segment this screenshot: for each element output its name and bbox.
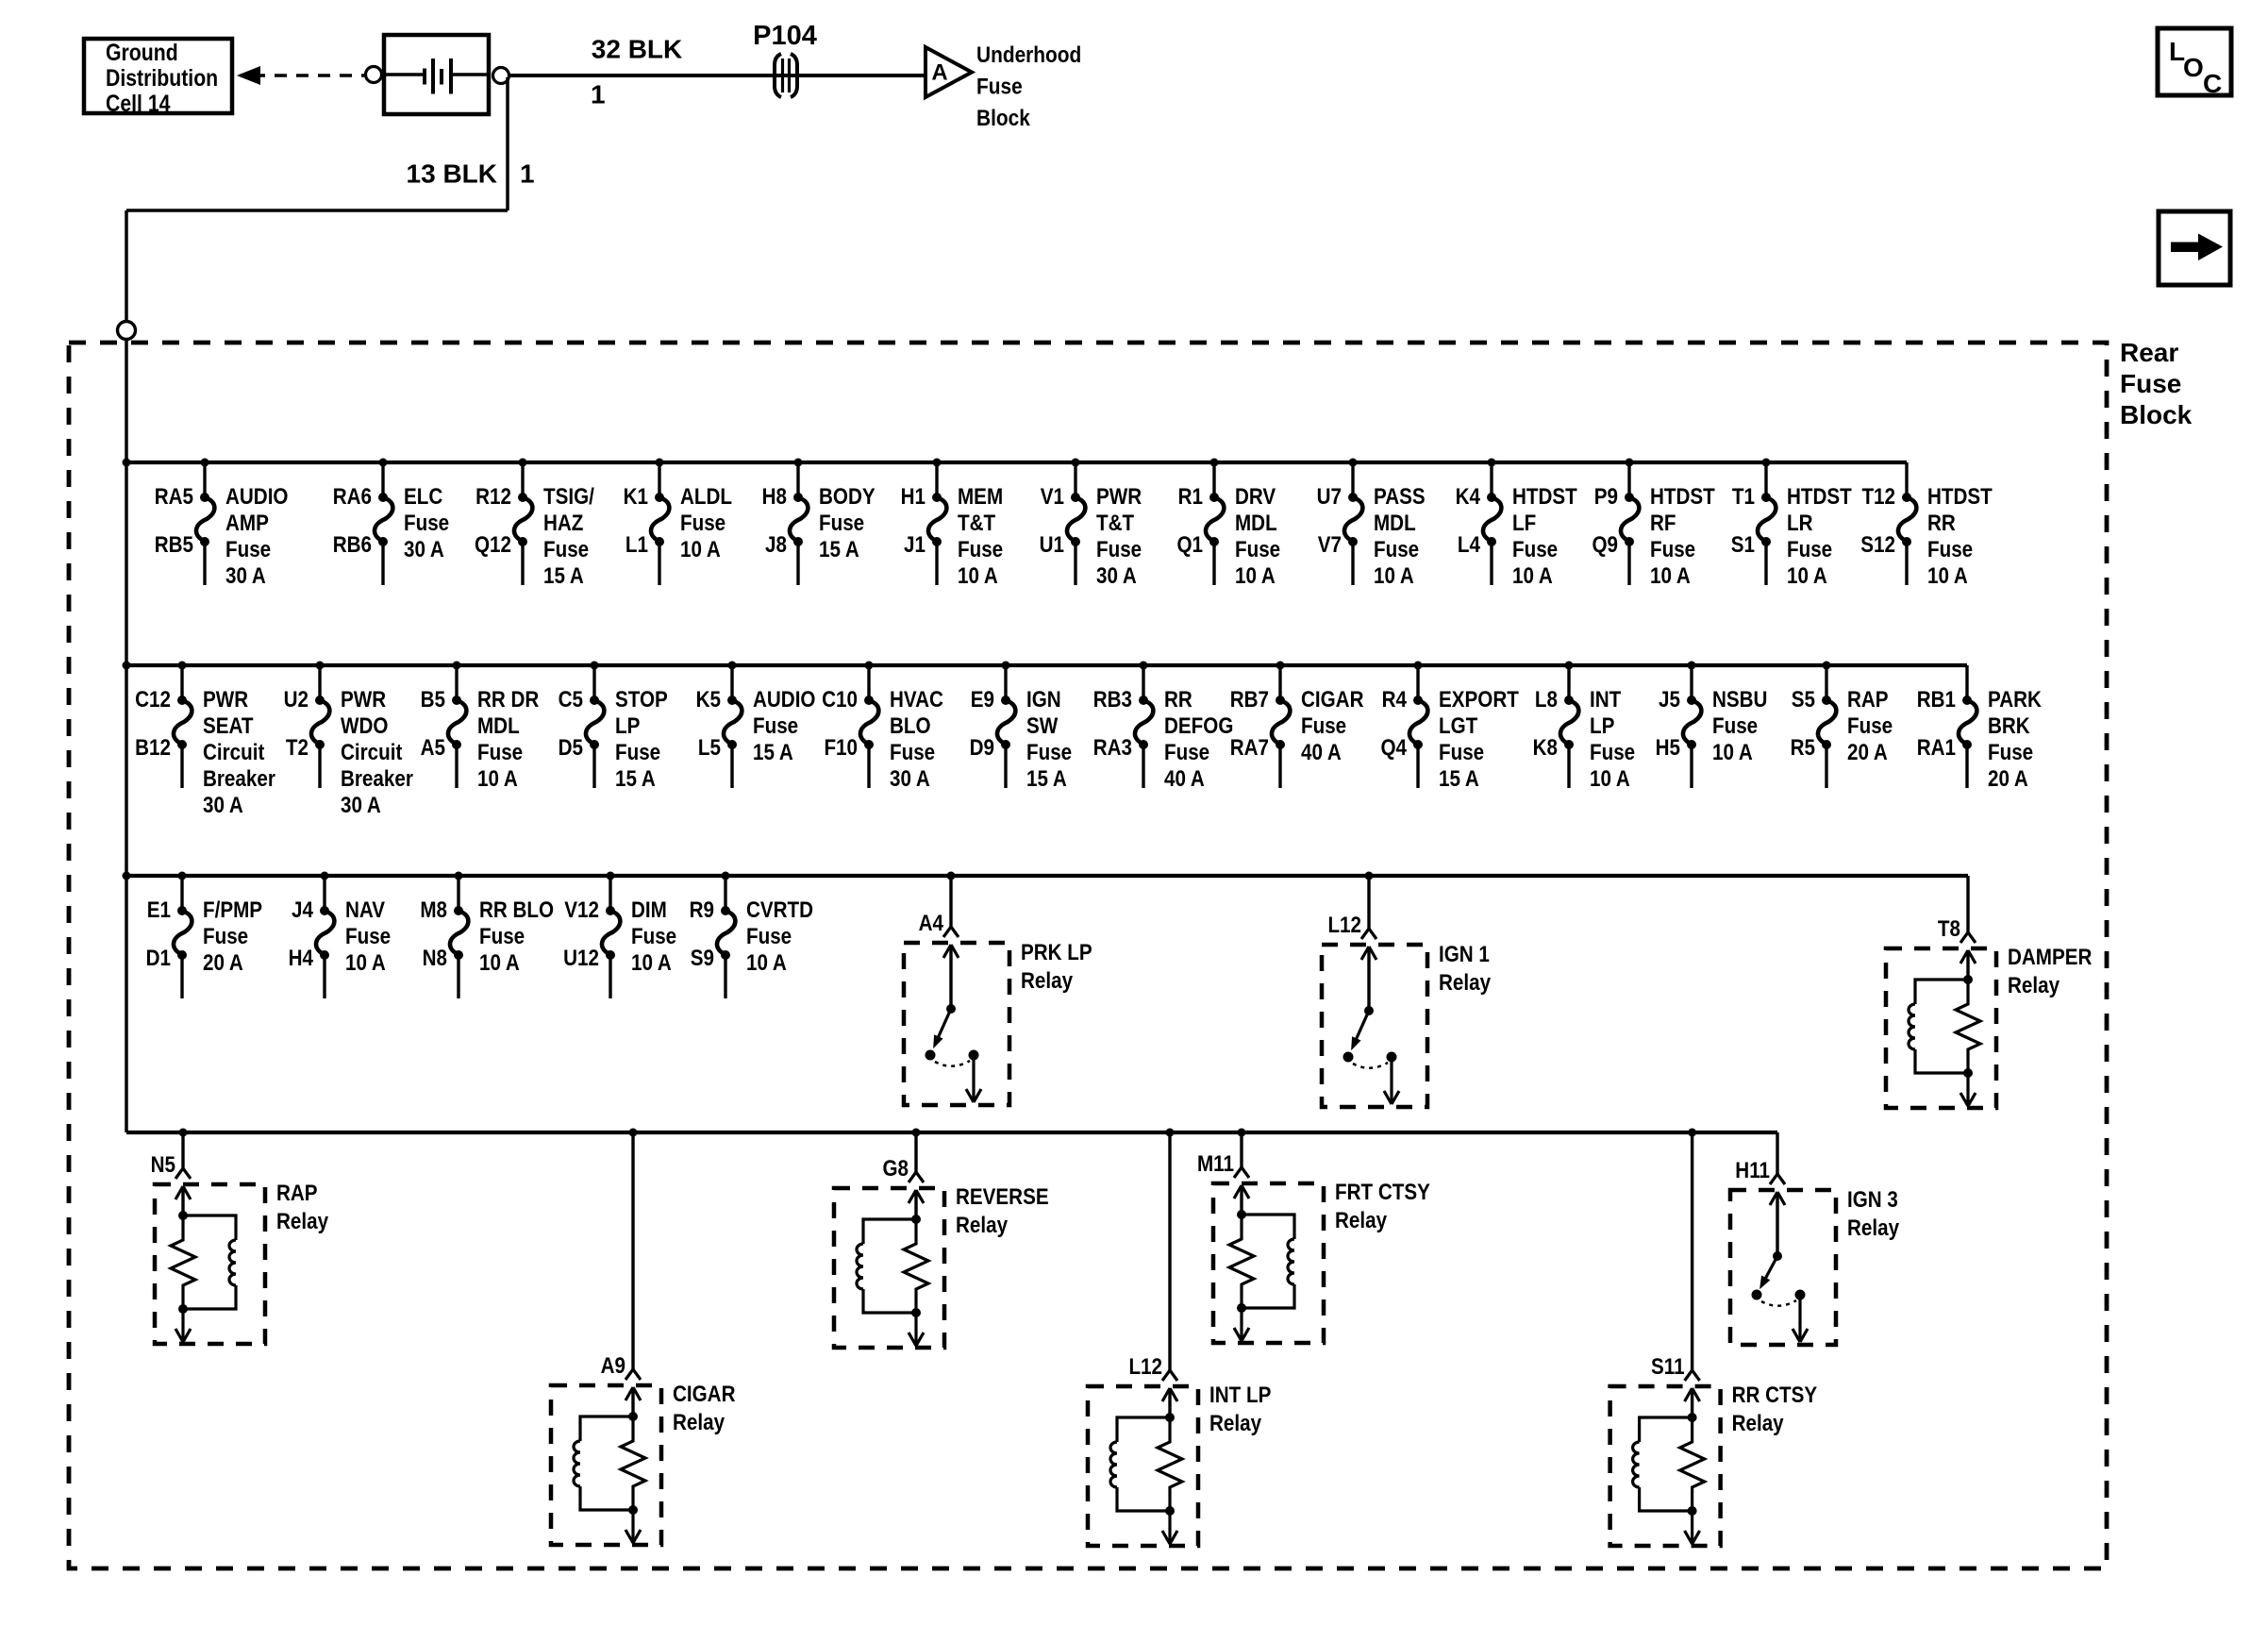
- svg-text:Fuse: Fuse: [1927, 537, 1973, 562]
- svg-text:J5: J5: [1659, 687, 1680, 712]
- svg-text:H4: H4: [289, 946, 314, 971]
- svg-text:Q9: Q9: [1592, 532, 1618, 558]
- svg-text:10 A: 10 A: [1235, 563, 1276, 589]
- svg-text:S12: S12: [1860, 532, 1895, 558]
- svg-text:S9: S9: [691, 946, 714, 971]
- svg-text:Cell 14: Cell 14: [106, 90, 171, 116]
- svg-text:AMP: AMP: [225, 511, 269, 536]
- svg-text:STOP: STOP: [615, 687, 668, 712]
- svg-text:U12: U12: [563, 946, 599, 971]
- svg-text:RR: RR: [1164, 687, 1192, 712]
- svg-text:Fuse: Fuse: [753, 713, 798, 739]
- svg-text:Circuit: Circuit: [203, 740, 265, 765]
- svg-text:R1: R1: [1178, 484, 1203, 510]
- svg-text:15 A: 15 A: [819, 537, 859, 562]
- svg-text:RB1: RB1: [1917, 687, 1956, 712]
- svg-text:PARK: PARK: [1988, 687, 2042, 712]
- svg-text:Fuse: Fuse: [345, 924, 391, 949]
- svg-text:15 A: 15 A: [753, 740, 793, 765]
- svg-text:PWR: PWR: [341, 687, 386, 712]
- svg-text:30 A: 30 A: [225, 563, 266, 589]
- svg-text:Fuse: Fuse: [1301, 713, 1346, 739]
- svg-text:Fuse: Fuse: [543, 537, 589, 562]
- svg-text:RA1: RA1: [1917, 735, 1956, 761]
- svg-text:Fuse: Fuse: [1787, 537, 1832, 562]
- svg-text:INT LP: INT LP: [1209, 1383, 1271, 1408]
- svg-text:Relay: Relay: [1335, 1208, 1388, 1233]
- svg-text:AUDIO: AUDIO: [753, 687, 815, 712]
- svg-text:15 A: 15 A: [1439, 766, 1479, 792]
- svg-text:RF: RF: [1650, 511, 1676, 536]
- svg-text:H8: H8: [762, 484, 787, 510]
- svg-text:Fuse: Fuse: [225, 537, 271, 562]
- svg-text:A9: A9: [601, 1353, 625, 1379]
- svg-text:L8: L8: [1535, 687, 1558, 712]
- svg-text:10 A: 10 A: [1787, 563, 1827, 589]
- svg-text:32 BLK: 32 BLK: [592, 35, 682, 64]
- svg-text:Fuse: Fuse: [404, 511, 449, 536]
- svg-text:Fuse: Fuse: [2120, 369, 2181, 398]
- svg-text:Fuse: Fuse: [1235, 537, 1280, 562]
- svg-text:T1: T1: [1732, 484, 1755, 510]
- svg-text:H1: H1: [901, 484, 926, 510]
- svg-text:M8: M8: [420, 897, 447, 923]
- svg-text:H5: H5: [1656, 735, 1680, 761]
- svg-text:Ground: Ground: [106, 39, 178, 65]
- svg-text:H11: H11: [1735, 1158, 1770, 1183]
- svg-text:10 A: 10 A: [680, 537, 721, 562]
- svg-text:RAP: RAP: [276, 1181, 318, 1206]
- svg-text:Fuse: Fuse: [1847, 713, 1893, 739]
- svg-text:Relay: Relay: [1847, 1215, 1900, 1241]
- svg-text:RB7: RB7: [1230, 687, 1269, 712]
- svg-text:20 A: 20 A: [1988, 766, 2028, 792]
- svg-text:Fuse: Fuse: [1026, 740, 1072, 765]
- svg-text:PRK LP: PRK LP: [1021, 940, 1092, 965]
- svg-text:AUDIO: AUDIO: [225, 484, 288, 510]
- svg-text:Fuse: Fuse: [746, 924, 792, 949]
- svg-text:10 A: 10 A: [1512, 563, 1553, 589]
- svg-text:Fuse: Fuse: [1590, 740, 1635, 765]
- svg-text:Fuse: Fuse: [1712, 713, 1758, 739]
- svg-text:MDL: MDL: [1374, 511, 1416, 536]
- svg-text:D5: D5: [559, 735, 583, 761]
- svg-text:10 A: 10 A: [345, 950, 386, 976]
- svg-text:L4: L4: [1458, 532, 1481, 558]
- svg-text:TSIG/: TSIG/: [543, 484, 594, 510]
- svg-text:L1: L1: [625, 532, 648, 558]
- svg-text:10 A: 10 A: [1927, 563, 1968, 589]
- svg-text:R5: R5: [1791, 735, 1815, 761]
- svg-text:Circuit: Circuit: [341, 740, 403, 765]
- svg-text:K8: K8: [1533, 735, 1558, 761]
- svg-text:SW: SW: [1026, 713, 1059, 739]
- svg-text:N5: N5: [151, 1152, 175, 1178]
- svg-text:U2: U2: [284, 687, 309, 712]
- svg-text:R4: R4: [1382, 687, 1408, 712]
- svg-text:T&T: T&T: [1096, 511, 1134, 536]
- svg-text:RA3: RA3: [1093, 735, 1132, 761]
- svg-text:E1: E1: [147, 897, 171, 923]
- svg-text:Fuse: Fuse: [1650, 537, 1695, 562]
- svg-text:R12: R12: [475, 484, 511, 510]
- svg-text:C12: C12: [135, 687, 171, 712]
- svg-text:V12: V12: [564, 897, 599, 923]
- svg-text:HAZ: HAZ: [543, 511, 584, 536]
- svg-text:30 A: 30 A: [203, 793, 243, 818]
- svg-text:15 A: 15 A: [543, 563, 584, 589]
- svg-text:K1: K1: [624, 484, 648, 510]
- svg-text:Fuse: Fuse: [890, 740, 935, 765]
- svg-text:SEAT: SEAT: [203, 713, 254, 739]
- svg-text:S5: S5: [1792, 687, 1815, 712]
- svg-text:BODY: BODY: [819, 484, 876, 510]
- svg-text:S1: S1: [1731, 532, 1755, 558]
- svg-text:T8: T8: [1938, 916, 1960, 942]
- svg-text:10 A: 10 A: [1712, 740, 1753, 765]
- svg-text:RR BLO: RR BLO: [479, 897, 554, 923]
- svg-text:Relay: Relay: [2008, 973, 2060, 998]
- svg-text:F/PMP: F/PMP: [203, 897, 262, 923]
- svg-text:DRV: DRV: [1235, 484, 1276, 510]
- svg-text:Fuse: Fuse: [1439, 740, 1484, 765]
- svg-text:Fuse: Fuse: [1096, 537, 1142, 562]
- svg-text:LP: LP: [1590, 713, 1614, 739]
- svg-text:Distribution: Distribution: [106, 64, 218, 91]
- svg-text:EXPORT: EXPORT: [1439, 687, 1519, 712]
- svg-text:10 A: 10 A: [1374, 563, 1414, 589]
- svg-text:NAV: NAV: [345, 897, 385, 923]
- svg-text:30 A: 30 A: [1096, 563, 1137, 589]
- svg-text:HVAC: HVAC: [890, 687, 943, 712]
- svg-text:LP: LP: [615, 713, 640, 739]
- svg-text:E9: E9: [971, 687, 994, 712]
- svg-text:Fuse: Fuse: [819, 511, 864, 536]
- svg-text:Fuse: Fuse: [958, 537, 1003, 562]
- svg-text:DEFOG: DEFOG: [1164, 713, 1233, 739]
- svg-text:C10: C10: [822, 687, 858, 712]
- svg-text:DAMPER: DAMPER: [2008, 945, 2092, 970]
- svg-text:LF: LF: [1512, 511, 1536, 536]
- svg-text:C5: C5: [559, 687, 583, 712]
- svg-text:Block: Block: [976, 106, 1030, 131]
- svg-text:30 A: 30 A: [341, 793, 381, 818]
- svg-text:Relay: Relay: [1209, 1411, 1262, 1436]
- svg-text:B12: B12: [135, 735, 171, 761]
- svg-text:L12: L12: [1327, 913, 1361, 938]
- svg-text:MEM: MEM: [958, 484, 1003, 510]
- svg-text:Relay: Relay: [1732, 1411, 1785, 1436]
- svg-text:HTDST: HTDST: [1787, 484, 1852, 510]
- svg-text:K5: K5: [696, 687, 721, 712]
- svg-text:10 A: 10 A: [479, 950, 520, 976]
- svg-text:30 A: 30 A: [890, 766, 930, 792]
- svg-text:Fuse: Fuse: [203, 924, 248, 949]
- svg-text:N8: N8: [423, 946, 447, 971]
- svg-text:REVERSE: REVERSE: [956, 1184, 1049, 1210]
- svg-text:10 A: 10 A: [958, 563, 998, 589]
- svg-text:S11: S11: [1651, 1354, 1685, 1380]
- svg-text:10 A: 10 A: [477, 766, 518, 792]
- svg-text:Fuse: Fuse: [477, 740, 523, 765]
- svg-text:Q4: Q4: [1380, 735, 1407, 761]
- svg-text:Underhood: Underhood: [976, 42, 1081, 68]
- svg-text:RAP: RAP: [1847, 687, 1889, 712]
- svg-text:J8: J8: [765, 532, 787, 558]
- svg-text:V1: V1: [1041, 484, 1064, 510]
- svg-text:Rear: Rear: [2120, 338, 2178, 367]
- svg-text:L5: L5: [698, 735, 721, 761]
- svg-text:A: A: [931, 60, 947, 86]
- svg-text:G8: G8: [882, 1156, 909, 1182]
- svg-text:PASS: PASS: [1374, 484, 1426, 510]
- svg-text:PWR: PWR: [203, 687, 248, 712]
- svg-text:R9: R9: [690, 897, 714, 923]
- svg-text:Fuse: Fuse: [1164, 740, 1209, 765]
- svg-text:Fuse: Fuse: [976, 74, 1023, 99]
- svg-text:Fuse: Fuse: [631, 924, 676, 949]
- svg-text:T2: T2: [286, 735, 309, 761]
- svg-text:WDO: WDO: [341, 713, 388, 739]
- svg-text:Breaker: Breaker: [203, 766, 275, 792]
- svg-text:IGN: IGN: [1026, 687, 1061, 712]
- svg-text:ELC: ELC: [404, 484, 442, 510]
- svg-text:DIM: DIM: [631, 897, 667, 923]
- svg-text:Fuse: Fuse: [479, 924, 525, 949]
- svg-text:LGT: LGT: [1439, 713, 1478, 739]
- svg-text:Relay: Relay: [1439, 970, 1492, 996]
- svg-text:D9: D9: [970, 735, 994, 761]
- svg-text:Q1: Q1: [1176, 532, 1203, 558]
- svg-text:15 A: 15 A: [615, 766, 656, 792]
- svg-text:Block: Block: [2120, 400, 2193, 429]
- svg-text:F10: F10: [824, 735, 858, 761]
- svg-text:Relay: Relay: [673, 1410, 725, 1435]
- svg-text:30 A: 30 A: [404, 537, 444, 562]
- svg-text:CVRTD: CVRTD: [746, 897, 813, 923]
- svg-text:P104: P104: [753, 21, 817, 51]
- svg-text:CIGAR: CIGAR: [1301, 687, 1363, 712]
- svg-text:O: O: [2183, 53, 2204, 82]
- svg-text:D1: D1: [146, 946, 171, 971]
- svg-text:FRT CTSY: FRT CTSY: [1335, 1180, 1430, 1205]
- svg-text:20 A: 20 A: [1847, 740, 1888, 765]
- svg-text:Relay: Relay: [276, 1209, 329, 1234]
- svg-text:10 A: 10 A: [1590, 766, 1630, 792]
- svg-text:BRK: BRK: [1988, 713, 2030, 739]
- svg-text:NSBU: NSBU: [1712, 687, 1767, 712]
- svg-text:IGN 3: IGN 3: [1847, 1187, 1898, 1213]
- svg-text:BLO: BLO: [890, 713, 931, 739]
- svg-text:U7: U7: [1317, 484, 1342, 510]
- svg-text:Fuse: Fuse: [1512, 537, 1558, 562]
- svg-text:C: C: [2203, 69, 2222, 98]
- svg-text:RB5: RB5: [155, 532, 193, 558]
- svg-text:15 A: 15 A: [1026, 766, 1067, 792]
- svg-text:Relay: Relay: [1021, 968, 1074, 994]
- svg-text:Fuse: Fuse: [615, 740, 660, 765]
- svg-text:IGN 1: IGN 1: [1439, 942, 1490, 967]
- svg-text:Fuse: Fuse: [680, 511, 725, 536]
- svg-text:MDL: MDL: [477, 713, 520, 739]
- svg-text:A5: A5: [421, 735, 445, 761]
- svg-text:10 A: 10 A: [631, 950, 672, 976]
- svg-text:T12: T12: [1861, 484, 1895, 510]
- svg-text:40 A: 40 A: [1164, 766, 1205, 792]
- svg-text:MDL: MDL: [1235, 511, 1277, 536]
- svg-text:RR CTSY: RR CTSY: [1732, 1383, 1818, 1408]
- svg-text:HTDST: HTDST: [1512, 484, 1577, 510]
- svg-text:K4: K4: [1456, 484, 1481, 510]
- svg-text:LR: LR: [1787, 511, 1813, 536]
- svg-text:A4: A4: [919, 911, 944, 936]
- svg-text:L12: L12: [1128, 1354, 1162, 1380]
- svg-text:1: 1: [591, 80, 606, 109]
- svg-text:HTDST: HTDST: [1927, 484, 1993, 510]
- svg-text:V7: V7: [1318, 532, 1342, 558]
- svg-text:CIGAR: CIGAR: [673, 1382, 735, 1407]
- svg-text:RB3: RB3: [1093, 687, 1132, 712]
- svg-text:RA6: RA6: [333, 484, 372, 510]
- svg-text:Q12: Q12: [475, 532, 511, 558]
- svg-text:RA5: RA5: [155, 484, 193, 510]
- svg-text:Fuse: Fuse: [1988, 740, 2033, 765]
- svg-text:ALDL: ALDL: [680, 484, 732, 510]
- svg-text:RA7: RA7: [1230, 735, 1269, 761]
- svg-text:B5: B5: [421, 687, 445, 712]
- svg-text:T&T: T&T: [958, 511, 995, 536]
- svg-text:J4: J4: [292, 897, 313, 923]
- svg-text:Relay: Relay: [956, 1213, 1009, 1238]
- svg-text:10 A: 10 A: [746, 950, 787, 976]
- svg-text:1: 1: [520, 159, 535, 189]
- svg-text:RR: RR: [1927, 511, 1956, 536]
- svg-text:10 A: 10 A: [1650, 563, 1691, 589]
- svg-text:P9: P9: [1594, 484, 1618, 510]
- svg-text:J1: J1: [904, 532, 926, 558]
- svg-text:13 BLK: 13 BLK: [407, 159, 497, 189]
- svg-text:PWR: PWR: [1096, 484, 1142, 510]
- svg-text:HTDST: HTDST: [1650, 484, 1715, 510]
- svg-text:RR DR: RR DR: [477, 687, 539, 712]
- svg-text:40 A: 40 A: [1301, 740, 1342, 765]
- svg-text:RB6: RB6: [333, 532, 372, 558]
- svg-text:20 A: 20 A: [203, 950, 243, 976]
- svg-text:M11: M11: [1197, 1151, 1234, 1177]
- svg-text:INT: INT: [1590, 687, 1622, 712]
- svg-text:Fuse: Fuse: [1374, 537, 1419, 562]
- svg-text:Breaker: Breaker: [341, 766, 413, 792]
- svg-text:U1: U1: [1040, 532, 1064, 558]
